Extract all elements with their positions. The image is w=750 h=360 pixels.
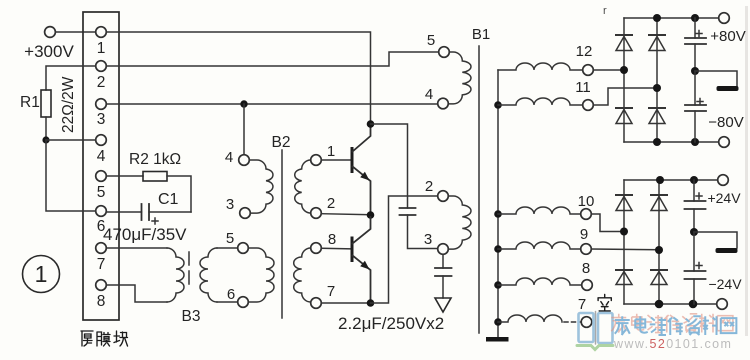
B1 winding 10 xyxy=(498,207,581,214)
junction node on pin3 wire xyxy=(240,100,247,107)
B2 upper-left winding xyxy=(249,160,273,213)
B1 winding 8 xyxy=(498,278,582,285)
junction dot on common (11) xyxy=(494,101,502,109)
svg-text:8: 8 xyxy=(582,260,590,277)
junction -rail / right branch xyxy=(653,138,661,146)
svg-text:7: 7 xyxy=(97,256,106,273)
svg-text:11: 11 xyxy=(575,79,591,96)
B1 terminal 4 xyxy=(438,98,449,109)
svg-text:3: 3 xyxy=(97,111,106,128)
B1 terminal 3 xyxy=(438,244,449,255)
wire junction to pin6 xyxy=(46,140,96,211)
capacitor 2.2uF (upper of pair) xyxy=(400,207,416,209)
junction dot on common (8) xyxy=(494,281,502,289)
svg-text:−24V: −24V xyxy=(708,276,742,292)
mid node dot xyxy=(691,67,699,75)
wire R2 to node xyxy=(167,176,191,212)
junction AC input right (from 9) xyxy=(655,246,663,254)
svg-text:3: 3 xyxy=(424,231,432,248)
wire junction to pin4 xyxy=(46,139,96,141)
厚膜块 label (thick film block) xyxy=(81,331,128,346)
wire mid node to chassis xyxy=(694,232,737,248)
svg-text:+24V: +24V xyxy=(707,190,741,206)
svg-text:B2: B2 xyxy=(272,134,291,151)
svg-text:4: 4 xyxy=(225,149,233,166)
wire cap to ground xyxy=(442,276,444,298)
mid node dot xyxy=(690,228,698,236)
junction -rail / cap branch xyxy=(691,138,699,146)
diode D8 xyxy=(651,270,667,285)
wire cap to B1 terminal 3 xyxy=(408,215,438,249)
B1 terminal 8 xyxy=(582,280,593,291)
left bridge branch xyxy=(623,18,625,142)
B2 terminal 4 xyxy=(239,155,250,166)
junction AC input left (from 10) xyxy=(620,228,628,236)
+24V rail xyxy=(624,179,718,181)
svg-text:r: r xyxy=(603,5,607,17)
svg-text:5: 5 xyxy=(97,184,106,201)
svg-text:6: 6 xyxy=(227,286,235,303)
B2 terminal 8 xyxy=(311,243,322,254)
diode D3 xyxy=(616,108,632,124)
B2 terminal 3 xyxy=(240,208,251,219)
wire B2-2 to middle node xyxy=(321,214,370,215)
svg-text:8: 8 xyxy=(328,231,336,248)
svg-text:7: 7 xyxy=(578,296,586,313)
B2 upper-right winding xyxy=(295,160,311,213)
chassis ground bar xyxy=(717,86,739,91)
pin 7 xyxy=(96,243,107,254)
pin 3 xyxy=(96,99,107,110)
thick film block U1 xyxy=(83,12,119,320)
svg-text:2.2μF/250Vx2: 2.2μF/250Vx2 xyxy=(338,314,444,333)
wire B2-8 to Q2 base xyxy=(321,247,351,250)
wire pin5 to R2 xyxy=(107,175,144,177)
B2 terminal 7 xyxy=(311,298,322,309)
wire node to B2 terminal 4 xyxy=(243,104,245,155)
pin 1 xyxy=(96,27,107,38)
wire mid node to chassis xyxy=(695,71,737,86)
junction +rail / right branch xyxy=(653,14,661,22)
collector node dot xyxy=(367,120,375,128)
-80V output terminal xyxy=(719,137,730,148)
svg-text:2: 2 xyxy=(97,74,106,91)
svg-text:3: 3 xyxy=(226,196,234,213)
B1 core xyxy=(478,46,480,333)
junction dot on common (10) xyxy=(494,210,502,218)
svg-text:B3: B3 xyxy=(182,308,201,325)
right bridge branch xyxy=(656,18,658,142)
capacitor 2.2uF (lower of pair) xyxy=(435,267,452,269)
pin 5 xyxy=(96,171,107,182)
wire pin2 to R1 top xyxy=(46,66,96,90)
pin 8 xyxy=(96,280,107,291)
B1 upper-left winding xyxy=(449,52,471,104)
B1 secondary common line xyxy=(497,70,499,337)
bottom node dot xyxy=(367,299,375,307)
svg-text:B1: B1 xyxy=(472,26,490,43)
wire R1 bottom to junction xyxy=(45,117,47,140)
pin 4 xyxy=(96,135,107,146)
wire B1-3 to lower 2.2uF cap xyxy=(442,254,444,268)
junction -rail / right branch xyxy=(655,300,664,309)
wire pin2 to B1 terminal 5 xyxy=(107,52,439,66)
junction +rail / cap branch xyxy=(691,14,699,22)
+80V rail xyxy=(624,17,719,19)
junction +rail / cap branch xyxy=(690,176,698,184)
B2 lower-left winding xyxy=(248,248,274,302)
+24V output terminal xyxy=(718,175,729,186)
svg-text:1: 1 xyxy=(35,261,48,287)
diode D4 xyxy=(649,108,665,124)
svg-text:470μF/35V: 470μF/35V xyxy=(103,225,187,244)
B2 terminal 6 xyxy=(238,297,249,308)
svg-text:4: 4 xyxy=(97,148,106,165)
svg-text:12: 12 xyxy=(576,43,593,60)
B1 terminal 5 xyxy=(439,47,450,58)
B1 winding 9 xyxy=(498,242,581,249)
wire pin6 to C1 xyxy=(107,211,142,213)
diode D6 xyxy=(651,195,667,211)
transistor Q2 xyxy=(351,237,354,263)
svg-text:C1: C1 xyxy=(158,191,179,208)
junction dot on common (7) xyxy=(494,318,502,326)
junction -rail / cap branch xyxy=(689,300,698,309)
wire B3 to terminal 6 xyxy=(217,301,238,303)
filter cap branch xyxy=(693,180,695,201)
-24V output terminal xyxy=(717,299,728,310)
left bridge branch xyxy=(623,180,625,304)
capacitor C-24 xyxy=(693,232,695,271)
scan artifact right edge xyxy=(745,6,748,336)
wire 10 to lower bridge xyxy=(591,214,624,232)
wire +300V to pin1 xyxy=(56,31,96,33)
capacitor C+80 xyxy=(685,37,706,39)
diode D7 xyxy=(616,270,632,285)
空 label (unused) xyxy=(598,295,611,312)
B2 terminal 2 xyxy=(311,208,322,219)
transistor Q1 xyxy=(351,147,354,173)
svg-text:22Ω/2W: 22Ω/2W xyxy=(60,76,77,133)
+80V output terminal xyxy=(719,13,730,24)
svg-text:4: 4 xyxy=(425,86,433,103)
svg-text:R2 1kΩ: R2 1kΩ xyxy=(129,151,181,168)
svg-text:+300V: +300V xyxy=(24,42,74,61)
junction AC input left (from 12) xyxy=(620,66,628,74)
capacitor C1 xyxy=(141,204,143,220)
resistor R1 xyxy=(41,90,51,117)
svg-text:7: 7 xyxy=(327,283,335,300)
chassis ground bar xyxy=(716,248,738,253)
B1 terminal 12 xyxy=(583,65,594,76)
wire B2-7 to bottom node xyxy=(321,302,370,304)
svg-text:2: 2 xyxy=(327,195,335,212)
B2 terminal 5 xyxy=(238,243,249,254)
wire collector node to coupling caps xyxy=(371,124,408,208)
-80V rail xyxy=(624,141,719,143)
junction dot on common (9) xyxy=(494,245,502,253)
svg-text:R1: R1 xyxy=(20,94,40,111)
B1 winding 12 xyxy=(498,63,583,70)
watermark text 家电维修资料网 (blue layer) xyxy=(615,316,737,335)
wire B1-2 to bottom node xyxy=(371,196,438,303)
resistor R2 xyxy=(143,172,167,182)
B1 winding 7 (unused) xyxy=(498,315,562,322)
B1 terminal 7 xyxy=(581,317,592,328)
-24V rail xyxy=(624,303,717,305)
wire pin7 to B3 xyxy=(107,247,168,249)
wire B3 to terminal 5 xyxy=(217,247,238,249)
B1 terminal 2 xyxy=(438,191,449,202)
junction node A xyxy=(42,136,49,143)
pin 2 xyxy=(96,61,107,72)
svg-text:+80V: +80V xyxy=(710,28,745,45)
dashed lead to terminal 7 xyxy=(564,321,581,323)
svg-text:1: 1 xyxy=(97,40,106,57)
watermark text 家电维修资料网 (red ghost layer) xyxy=(611,314,733,333)
B1 winding 11 xyxy=(498,98,583,105)
capacitor C-80 xyxy=(694,71,696,105)
wire B2-1 to Q1 base xyxy=(321,159,351,161)
wire 12 to upper bridge xyxy=(593,69,624,71)
pin 6 xyxy=(96,206,107,217)
B2 core xyxy=(281,150,283,318)
B3 core xyxy=(188,252,190,285)
svg-text:5: 5 xyxy=(226,230,234,247)
B1 terminal 10 xyxy=(581,209,592,220)
wire C1 to node xyxy=(149,211,191,213)
diode D2 xyxy=(649,35,665,51)
middle node dot xyxy=(367,211,375,219)
wire 9 to lower bridge xyxy=(591,248,659,251)
svg-text:10: 10 xyxy=(578,193,595,210)
watermark book icon xyxy=(577,312,613,350)
wire pin8 to B3 xyxy=(107,285,168,302)
wire pin3 to B1 terminal 4 xyxy=(107,103,438,105)
filter cap branch xyxy=(694,18,696,38)
svg-text:8: 8 xyxy=(97,293,106,310)
circled figure number 1 xyxy=(23,256,60,293)
diode D1 xyxy=(616,35,632,51)
svg-text:−80V: −80V xyxy=(708,114,743,131)
svg-text:9: 9 xyxy=(580,226,588,243)
svg-text:5: 5 xyxy=(427,32,435,49)
diode D5 xyxy=(616,195,632,211)
B2 lower-right winding xyxy=(294,248,311,302)
capacitor C+24 xyxy=(685,200,706,202)
junction +rail / right branch xyxy=(656,176,664,184)
wire 11 to upper bridge xyxy=(593,88,653,105)
B1 terminal 9 xyxy=(581,244,592,255)
chassis ground bar (B1 common) xyxy=(486,337,509,342)
svg-text:1: 1 xyxy=(327,143,335,160)
B3 right winding xyxy=(200,248,217,302)
B1 lower-left winding xyxy=(448,196,471,249)
svg-text:2: 2 xyxy=(425,178,433,195)
B1 terminal 11 xyxy=(583,100,594,111)
+300V input terminal xyxy=(45,27,56,38)
junction AC input right (from 11) xyxy=(653,84,661,92)
ground (signal, triangle) xyxy=(435,298,451,312)
transformer B3 left winding xyxy=(167,248,184,302)
svg-text:www.520101.com: www.520101.com xyxy=(613,337,732,351)
B2 terminal 1 xyxy=(311,155,322,166)
wire pin1 to collector node xyxy=(107,32,371,121)
right bridge branch xyxy=(658,180,660,304)
